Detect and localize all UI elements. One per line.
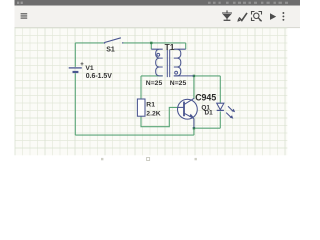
svg-text:+: +	[80, 62, 84, 68]
toolbar	[15, 6, 301, 28]
wire: battery leads	[74, 43, 76, 135]
polarity dot primary	[157, 53, 160, 56]
transformer T1 primary winding	[151, 49, 185, 77]
transformer T1 secondary winding	[174, 49, 186, 76]
resistor R1	[137, 99, 145, 116]
svg-text:S1: S1	[106, 47, 115, 54]
wire: left top drop	[150, 43, 152, 49]
svg-text:N=25: N=25	[146, 80, 163, 87]
toolbar icon: zoom to fit	[252, 12, 262, 22]
status bar right icons	[208, 2, 288, 4]
wire: emitter riser	[193, 128, 195, 135]
svg-text:D1: D1	[205, 110, 214, 117]
node: top rail junction	[150, 42, 152, 44]
page background	[0, 0, 300, 168]
transformer core	[167, 49, 169, 77]
toolbar icon: play	[270, 13, 276, 20]
page indicator marks	[101, 158, 197, 161]
svg-text:V1: V1	[85, 65, 94, 72]
grid minor lines	[15, 28, 287, 155]
toolbar icon: add component	[222, 10, 232, 20]
switch S1	[104, 38, 124, 44]
wire: R1 bottom z-path to base	[141, 107, 178, 126]
status bar	[15, 0, 301, 6]
transistor Q1	[178, 98, 198, 128]
node: emitter junction	[193, 127, 195, 129]
wire: rail to LED cathode	[194, 127, 220, 129]
wire: LED anode drop	[219, 76, 221, 103]
svg-text:2.2K: 2.2K	[146, 111, 160, 118]
wire: collector drop	[193, 76, 195, 99]
status bar left icons	[17, 2, 23, 4]
svg-text:R1: R1	[146, 101, 155, 108]
svg-text:T1: T1	[165, 42, 175, 52]
svg-text:0.6-1.5V: 0.6-1.5V	[86, 73, 112, 80]
LED light arrows	[226, 106, 235, 118]
polarity dot secondary	[175, 71, 178, 74]
wire: transformer right bottom lead	[174, 75, 194, 77]
svg-text:C945: C945	[195, 93, 216, 103]
wire: LED cathode drop	[219, 111, 221, 128]
wire: R1 top lead	[140, 76, 142, 99]
wire: transformer left bottom lead	[141, 75, 163, 77]
wire: bottom rail	[75, 134, 194, 136]
node: collector branch junction	[193, 75, 195, 77]
schematic sheet	[15, 28, 287, 155]
battery V1 plates	[69, 68, 82, 72]
toolbar icon: overflow menu	[282, 12, 284, 21]
grid major lines	[15, 28, 287, 155]
wire: collector branch	[194, 75, 220, 77]
hamburger menu icon	[21, 13, 28, 19]
svg-text:N=25: N=25	[170, 80, 187, 87]
wire: right top drop	[185, 43, 187, 49]
LED D1 symbol	[217, 103, 224, 110]
wire: top rail	[75, 42, 104, 44]
toolbar icon: wire tool	[237, 13, 247, 22]
